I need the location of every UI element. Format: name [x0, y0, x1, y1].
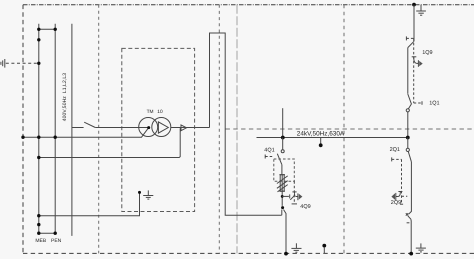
disconnector 4Q1: [282, 138, 284, 150]
cell divider x=344: [343, 5, 345, 254]
wire 1Q feeder: [413, 5, 415, 42]
node transformer star point: [147, 126, 150, 129]
node dot bottom frame: [284, 252, 288, 256]
earthing switch 1Q9 blade: [408, 41, 414, 47]
switch blade on primary: [84, 122, 95, 127]
node dot: [54, 232, 57, 235]
wire neutral loop: [39, 128, 181, 158]
node dot: [37, 28, 40, 31]
node dot: [21, 136, 24, 139]
ground top right: [416, 5, 426, 16]
node dot: [37, 232, 40, 235]
wire right leg down to frame: [284, 210, 287, 254]
wire top jumper: [39, 28, 55, 30]
earthing switch 4Q9 branch: [282, 192, 302, 200]
boundary line x=237: [236, 5, 238, 254]
svg-text:10: 10: [157, 109, 163, 115]
earth electrode symbol: [1, 59, 5, 68]
node dot top frame 1Q: [412, 3, 416, 7]
enclosure frame top dashed line: [23, 4, 474, 6]
1Q9 mechanism: [412, 57, 423, 67]
node dot at transformer ground: [138, 191, 141, 194]
svg-text:TM: TM: [147, 109, 154, 115]
1Q1 linkage tick: [414, 102, 422, 104]
svg-text:MEB: MEB: [35, 238, 47, 244]
enclosure frame left dashed line: [22, 5, 24, 254]
wire MEB earthing line: [39, 192, 140, 215]
cell divider x=219: [218, 5, 220, 254]
lower switch contact 4Q: [281, 206, 284, 209]
svg-text:400V,50Hz L1,L2,L3: 400V,50Hz L1,L2,L3: [62, 73, 68, 122]
junction dots left section: [21, 28, 57, 235]
node dot busbar 4Q1: [281, 136, 285, 140]
node dot bottom frame right: [409, 252, 413, 256]
node dot fuse branch: [281, 195, 284, 198]
node dot: [54, 136, 57, 139]
arrow on output: [181, 125, 187, 131]
svg-text:24kV,50Hz,630A: 24kV,50Hz,630A: [297, 130, 345, 137]
node dot: [37, 223, 40, 226]
4Q1 feeder stub above busbar: [282, 108, 284, 137]
fuse compartment dashed box: [274, 159, 295, 181]
enclosure frame bottom dashed line: [23, 252, 474, 254]
node L2 bus: [54, 24, 56, 233]
transformer cell dashed box: [122, 48, 195, 211]
4Q linkage dashed: [293, 181, 295, 204]
svg-text:4Q1: 4Q1: [264, 148, 274, 154]
ground bottom middle: [291, 243, 301, 252]
svg-text:1Q1: 1Q1: [429, 101, 439, 107]
node dot: [54, 28, 57, 31]
disconnector 2Q1: [407, 138, 409, 149]
svg-text:PEN: PEN: [51, 238, 62, 244]
dashed line y=129: [226, 128, 474, 130]
wire bottom jumper: [39, 232, 55, 234]
node dot: [37, 214, 40, 217]
busbar stub with dot: [320, 138, 322, 145]
wire secondary output: [171, 127, 210, 129]
stub with dot on bottom frame: [322, 244, 326, 248]
wire between 2Q1 and 2Q9: [409, 162, 412, 215]
2Q9 mechanism: [391, 192, 402, 201]
wire primary line: [72, 127, 84, 129]
wire 2Q9 to bottom frame: [410, 219, 412, 253]
node dot busbar 2Q1: [406, 136, 410, 140]
svg-text:1Q9: 1Q9: [422, 50, 432, 56]
node dot: [37, 136, 40, 139]
4Q1 manual tick: [264, 155, 266, 159]
svg-text:2Q9: 2Q9: [391, 200, 401, 206]
wire to fuse: [281, 165, 283, 175]
node dot: [37, 156, 40, 159]
wire riser over divider: [210, 33, 282, 215]
cell divider x=98: [98, 5, 100, 254]
busbar 24kV: [257, 137, 409, 139]
wire between 1Q9 and 1Q1: [407, 48, 409, 94]
svg-text:2Q1: 2Q1: [390, 147, 400, 153]
node dot: [37, 38, 40, 41]
node dot: [37, 62, 40, 65]
ground in transformer cell: [143, 190, 153, 199]
wire PEN line to transformer: [23, 128, 149, 138]
node L3 bus: [71, 24, 73, 236]
2Q1 manual tick: [391, 157, 393, 161]
wire primary line continued: [95, 127, 148, 129]
node L1 bus: [38, 24, 40, 233]
2Q linkage dashed: [401, 159, 403, 204]
svg-text:4Q9: 4Q9: [300, 204, 310, 210]
earthing switch 2Q9 contacts: [406, 213, 411, 223]
wire dashed earth link: [6, 62, 39, 64]
1Q9 manual tick: [405, 36, 407, 40]
disconnector 1Q1: [408, 94, 412, 109]
1Q linkage dashed: [413, 38, 415, 103]
wire left leg to riser: [281, 210, 283, 216]
ground bottom right: [416, 243, 426, 252]
fuse F1: [277, 175, 288, 206]
transformer TM 10: [139, 118, 171, 137]
